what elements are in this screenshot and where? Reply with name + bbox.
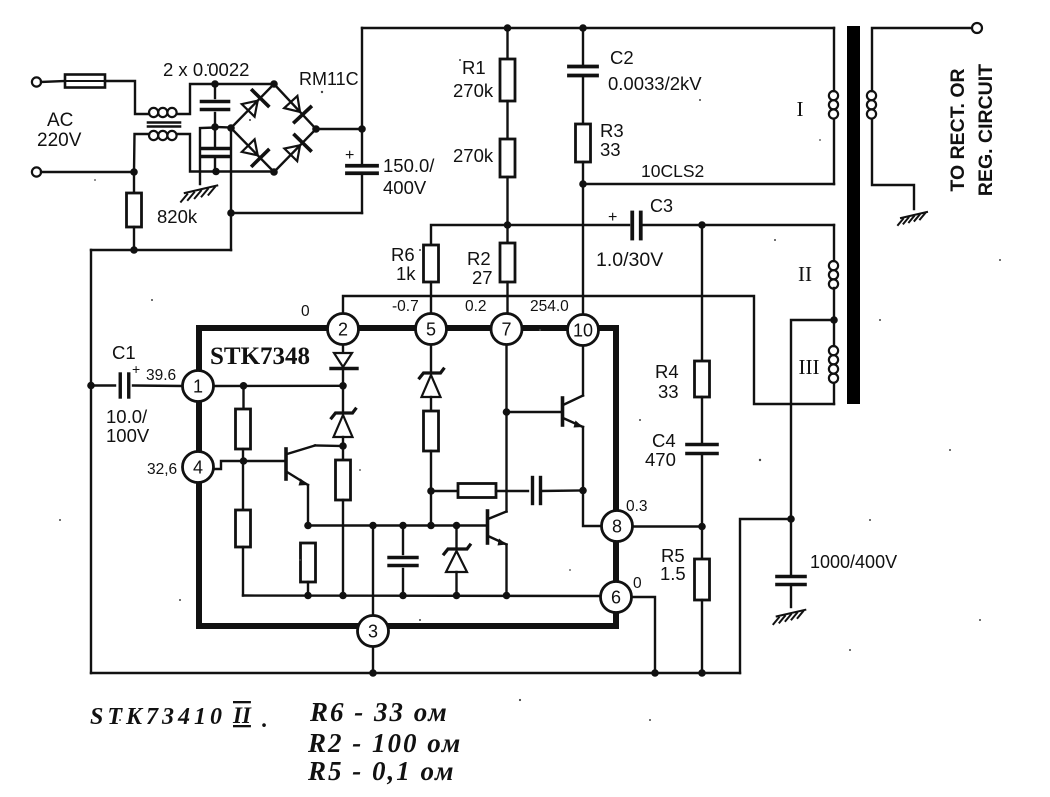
svg-text:10CLS2: 10CLS2: [641, 161, 704, 181]
svg-text:REG. CIRCUIT: REG. CIRCUIT: [975, 64, 997, 196]
svg-text:-0.7: -0.7: [392, 298, 419, 315]
svg-text:470: 470: [645, 449, 676, 470]
svg-text:254.0: 254.0: [530, 298, 569, 315]
svg-text:820k: 820k: [157, 206, 198, 227]
svg-text:R6: R6: [391, 244, 415, 265]
svg-text:R4: R4: [655, 361, 679, 382]
svg-text:C3: C3: [650, 196, 673, 216]
svg-text:2: 2: [338, 320, 348, 340]
svg-text:270k: 270k: [453, 80, 494, 101]
svg-text:32,6: 32,6: [147, 461, 177, 478]
svg-text:0.3: 0.3: [626, 498, 648, 515]
svg-text:10.0/: 10.0/: [106, 406, 148, 427]
svg-text:R5 - 0,1 ом: R5 - 0,1 ом: [307, 756, 455, 786]
svg-text:R6 - 33 ом: R6 - 33 ом: [309, 697, 449, 727]
svg-text:III: III: [799, 355, 820, 379]
svg-text:1: 1: [193, 377, 203, 397]
svg-text:1k: 1k: [396, 263, 416, 284]
svg-text:1.0/30V: 1.0/30V: [596, 249, 663, 271]
svg-text:6: 6: [611, 588, 621, 608]
svg-text:10: 10: [573, 321, 593, 341]
svg-text:33: 33: [600, 139, 621, 160]
svg-text:1.5: 1.5: [660, 563, 686, 584]
svg-text:R2: R2: [467, 248, 491, 269]
svg-text:R2 - 100 ом: R2 - 100 ом: [307, 728, 462, 758]
svg-text:4: 4: [193, 458, 203, 478]
svg-text:5: 5: [426, 320, 436, 340]
svg-text:3: 3: [368, 622, 378, 642]
svg-text:+: +: [132, 361, 140, 377]
svg-text:0.2: 0.2: [465, 298, 487, 315]
svg-text:R3: R3: [600, 120, 624, 141]
svg-text:STK73410: STK73410: [90, 704, 226, 730]
svg-text:100V: 100V: [106, 425, 150, 446]
svg-text:1000/400V: 1000/400V: [810, 552, 897, 572]
svg-text:.: .: [262, 707, 268, 732]
svg-text:220V: 220V: [37, 130, 82, 151]
svg-text:8: 8: [612, 517, 622, 537]
svg-text:270k: 270k: [453, 145, 494, 166]
svg-text:2 x 0.0022: 2 x 0.0022: [163, 59, 249, 80]
svg-text:400V: 400V: [383, 177, 427, 198]
svg-text:+: +: [345, 147, 354, 164]
svg-text:33: 33: [658, 381, 679, 402]
svg-text:7: 7: [501, 320, 511, 340]
svg-text:+: +: [608, 209, 617, 226]
svg-text:27: 27: [472, 267, 493, 288]
svg-text:I: I: [797, 97, 804, 121]
svg-text:STK7348: STK7348: [210, 343, 310, 370]
svg-text:II: II: [232, 703, 252, 728]
svg-text:0.0033/2kV: 0.0033/2kV: [608, 73, 702, 94]
svg-text:RM11C: RM11C: [299, 69, 359, 89]
svg-text:TO RECT. OR: TO RECT. OR: [947, 68, 969, 191]
svg-text:AC: AC: [47, 110, 73, 131]
svg-text:0: 0: [301, 303, 310, 320]
svg-text:C4: C4: [652, 430, 676, 451]
svg-text:0: 0: [633, 575, 642, 592]
svg-text:C2: C2: [610, 47, 634, 68]
svg-text:150.0/: 150.0/: [383, 155, 435, 176]
svg-text:R1: R1: [462, 57, 486, 78]
svg-text:39.6: 39.6: [146, 367, 176, 384]
svg-text:C1: C1: [112, 342, 136, 363]
svg-text:II: II: [798, 262, 812, 286]
